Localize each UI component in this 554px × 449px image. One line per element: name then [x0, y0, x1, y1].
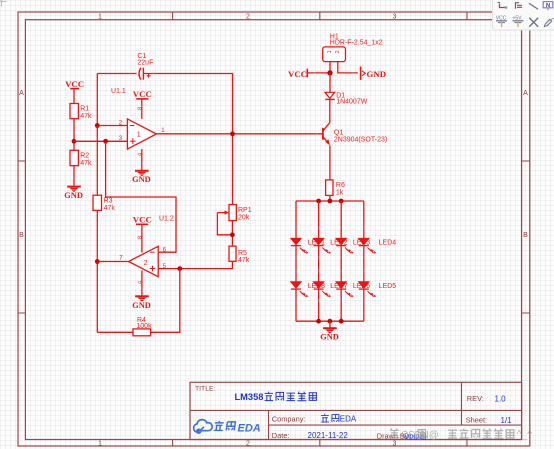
- svg-text:U1.1: U1.1: [111, 88, 126, 95]
- label Sheet: [466, 416, 512, 425]
- svg-text:1N4007W: 1N4007W: [336, 99, 368, 106]
- svg-text:A: A: [523, 90, 528, 97]
- title value LM358 breathing light design: [235, 392, 317, 403]
- svg-text:TITLE:: TITLE:: [195, 385, 216, 392]
- frame zone numbers bottom: [98, 440, 397, 447]
- op-amp U1.2: [129, 216, 174, 297]
- svg-text:R3: R3: [104, 197, 113, 204]
- svg-text:VCC: VCC: [65, 79, 84, 89]
- node bottom bus junctions: [316, 319, 343, 324]
- svg-text:1: 1: [137, 132, 141, 139]
- svg-text:1: 1: [98, 14, 102, 21]
- svg-text:R5: R5: [238, 250, 247, 257]
- wire VCC to R1: [73, 89, 75, 104]
- wire pin5 net to R5 bottom: [158, 261, 232, 268]
- pin end dots: [73, 72, 365, 301]
- LED6: [336, 282, 370, 297]
- svg-text:GND: GND: [320, 333, 339, 342]
- svg-text:HDR-F-2.54_1x2: HDR-F-2.54_1x2: [330, 40, 383, 47]
- potentiometer RP1: [217, 205, 251, 235]
- wire VCC flag to node: [307, 72, 330, 74]
- wire junction to U1.1 pin2: [97, 125, 127, 127]
- svg-text:EDA: EDA: [238, 423, 261, 435]
- wire bus to ground: [329, 321, 331, 328]
- svg-text:8: 8: [138, 236, 144, 239]
- svg-text:7: 7: [119, 256, 123, 262]
- frame zone numbers top: [98, 14, 397, 21]
- toolbar icon VCC flag tool: [496, 15, 507, 27]
- svg-text:3: 3: [393, 14, 397, 21]
- node R1/R2 junction: [72, 139, 77, 144]
- svg-text:REV:: REV:: [467, 394, 484, 403]
- svg-text:1k: 1k: [336, 189, 344, 196]
- svg-text:B: B: [523, 232, 528, 239]
- connector H1: [323, 33, 383, 73]
- svg-text:EDA: EDA: [340, 414, 357, 423]
- toolbar panel: [493, 0, 554, 30]
- svg-text:47k: 47k: [238, 257, 250, 264]
- toolbar icon line tool: [529, 3, 538, 9]
- label Date: [272, 431, 349, 440]
- svg-text:CSDN@: CSDN@: [401, 430, 439, 441]
- wire R6 to LED bus: [329, 195, 331, 201]
- svg-text:20k: 20k: [238, 215, 250, 222]
- transistor Q1: [323, 122, 387, 145]
- svg-text:2021-11-22: 2021-11-22: [308, 431, 349, 440]
- svg-text:3: 3: [393, 440, 397, 447]
- svg-text:VCC: VCC: [133, 89, 152, 99]
- svg-text:VCC: VCC: [288, 69, 307, 79]
- svg-text:4: 4: [138, 281, 144, 284]
- node H1/VCC/D1 junction: [327, 70, 332, 75]
- node pin2 junction: [95, 123, 100, 128]
- LED8: [291, 282, 325, 297]
- node pin3 branch junction: [103, 139, 108, 144]
- svg-text:LM358: LM358: [235, 392, 264, 402]
- svg-text:8: 8: [138, 107, 144, 110]
- toolbar icon no-connect tool: [529, 18, 538, 27]
- LED2: [314, 239, 348, 254]
- wire junction to U1.1 pin3: [74, 140, 127, 142]
- frame zone letters left: [19, 90, 24, 239]
- svg-text:2: 2: [246, 14, 250, 21]
- svg-text:2: 2: [335, 50, 341, 53]
- LED7: [314, 282, 348, 297]
- node R4 top junction: [177, 266, 182, 271]
- wire C1 right to corner to output net: [143, 74, 232, 205]
- svg-text:1: 1: [98, 440, 102, 447]
- wire node to D1: [329, 73, 331, 92]
- svg-text:RP1: RP1: [238, 207, 252, 214]
- LED1: [291, 239, 325, 254]
- svg-text:LED5: LED5: [379, 283, 396, 290]
- logo LCEDA cloud: [194, 420, 213, 434]
- svg-text:47k: 47k: [104, 205, 116, 212]
- wire R2 to ground: [73, 166, 75, 187]
- wire R3 to U1.2 output to R4: [96, 210, 98, 332]
- wire RP1 bottom to R5: [231, 221, 233, 247]
- svg-text:1: 1: [327, 50, 333, 53]
- toolbar icon +5V flag tool: [513, 15, 524, 27]
- svg-text:1.0: 1.0: [495, 395, 507, 404]
- svg-text:Date:: Date:: [272, 431, 290, 440]
- svg-text:2: 2: [246, 440, 250, 447]
- wire D1 to Q1 collector: [329, 99, 331, 122]
- svg-text:47k: 47k: [80, 160, 92, 167]
- svg-text:B: B: [19, 232, 24, 239]
- svg-text:Sheet:: Sheet:: [466, 416, 487, 425]
- capacitor C1: [137, 53, 153, 80]
- wire U1.1 output to Q1 base: [156, 133, 322, 135]
- LED3: [336, 239, 370, 254]
- svg-text:R6: R6: [336, 182, 345, 189]
- ground GND (LED bus): [320, 328, 339, 341]
- resistor R3: [93, 195, 115, 212]
- svg-text:U1.2: U1.2: [159, 216, 174, 223]
- svg-text:47k: 47k: [80, 113, 92, 120]
- wire net C1-left / R3 vertical: [96, 74, 98, 196]
- power flag VCC (U1.1): [133, 89, 152, 99]
- svg-text:Company:: Company:: [272, 414, 306, 423]
- svg-text:R1: R1: [80, 106, 89, 113]
- node output/C1/RP1 junction: [230, 131, 235, 136]
- ground GND (U1.1): [132, 171, 151, 184]
- svg-text:2: 2: [144, 260, 148, 267]
- svg-text:LED4: LED4: [379, 239, 396, 246]
- resistor R1: [70, 104, 92, 121]
- frame zone letters right: [523, 90, 528, 239]
- resistor R6: [326, 180, 345, 197]
- svg-text:GND: GND: [64, 191, 83, 200]
- wire Q1 emitter to R6: [329, 145, 331, 180]
- label Drawn By: [377, 431, 427, 440]
- label Company: [272, 414, 357, 424]
- wire U1.2 output pin7: [97, 256, 128, 262]
- wire R1 to R2: [73, 119, 75, 151]
- op-amp U1.1: [111, 88, 165, 171]
- diode D1: [325, 92, 368, 105]
- svg-text:2N3904(SOT-23): 2N3904(SOT-23): [334, 137, 387, 144]
- toolbar icon bus tool: [516, 2, 523, 9]
- toolbar icon wire tool: [498, 3, 508, 9]
- svg-text:GND: GND: [367, 69, 387, 79]
- svg-text:Q1: Q1: [334, 129, 343, 136]
- node top bus junctions: [316, 199, 343, 204]
- node U1.2 output junction: [95, 259, 100, 264]
- power flag VCC (U1.2): [133, 214, 152, 224]
- logo LCEDA text: [214, 421, 236, 430]
- wire LED top bus: [296, 200, 364, 202]
- title block border: [190, 382, 522, 439]
- toolbar icon net label tool: [543, 2, 553, 11]
- node RP1 wiper junction: [230, 232, 235, 237]
- svg-text:22uF: 22uF: [137, 59, 153, 66]
- ground GND (left rail): [64, 187, 83, 200]
- resistor R5: [229, 246, 250, 264]
- power flag VCC (left rail): [65, 79, 84, 89]
- LED middle column wires: [296, 246, 364, 282]
- watermark gray text: [390, 428, 532, 440]
- svg-text:1/1: 1/1: [501, 416, 513, 425]
- svg-text:GND: GND: [132, 175, 151, 184]
- wire R4 loop: [97, 269, 180, 333]
- svg-text:GND: GND: [132, 301, 151, 310]
- power flag VCC (H1): [288, 69, 307, 79]
- LED5: [359, 282, 396, 297]
- title block dividers: [190, 382, 522, 439]
- net flag GND (H1 pin2): [361, 67, 386, 80]
- resistor R4: [133, 317, 152, 336]
- svg-text:R2: R2: [80, 153, 89, 160]
- svg-text:4: 4: [138, 153, 144, 156]
- wire top to C1 left: [97, 73, 136, 75]
- svg-text:^_^: ^_^: [517, 429, 533, 441]
- origin marker: [0, 0, 7, 7]
- resistor R2: [70, 150, 92, 167]
- ground GND (U1.2): [132, 296, 151, 310]
- wire LED bottom bus: [296, 320, 364, 322]
- wire pin3 net to U1.2 pin6: [106, 141, 176, 252]
- LED4: [359, 239, 396, 254]
- toolbar icon pen tool: [545, 19, 554, 27]
- svg-text:A: A: [19, 90, 24, 97]
- label TITLE: [195, 385, 216, 392]
- svg-text:100k: 100k: [136, 323, 152, 330]
- LED cathode column wires: [296, 289, 364, 321]
- svg-text:VCC: VCC: [133, 214, 152, 224]
- LED column wires anodes: [296, 201, 364, 239]
- label REV: [467, 394, 506, 403]
